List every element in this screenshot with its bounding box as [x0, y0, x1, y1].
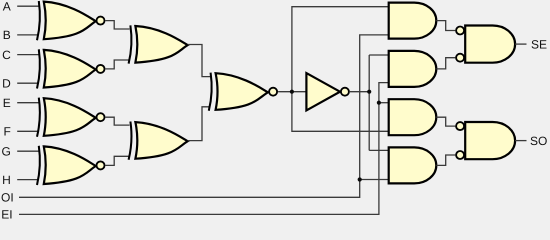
wire input B — [17, 34, 39, 36]
junction OI branch — [358, 177, 362, 181]
XNOR gate U3 (E,F) — [37, 98, 105, 137]
wire U3 out to U6 — [106, 117, 130, 125]
wire U1 out to U5 — [106, 21, 130, 29]
XOR gate U5 — [129, 25, 188, 63]
junction node X — [290, 90, 294, 94]
svg-text:D: D — [2, 77, 11, 91]
wire input F — [17, 130, 39, 132]
NOR gate U13 (SE) — [456, 26, 515, 63]
wire EI input — [19, 83, 390, 215]
svg-text:C: C — [2, 48, 11, 62]
svg-text:EI: EI — [1, 208, 12, 222]
svg-text:G: G — [1, 145, 10, 159]
wire U2 out to U5 — [106, 60, 130, 69]
XNOR gate U7 — [209, 73, 277, 111]
wire OI input — [19, 35, 390, 197]
wire U4 out to U6 — [106, 156, 130, 165]
AND gate U11 — [389, 99, 437, 135]
inverter U8 — [306, 73, 349, 110]
wire node X to U9 top — [292, 7, 390, 92]
wire input G — [17, 150, 39, 152]
wire node NX to U10 top — [368, 55, 370, 150]
wire SO output — [515, 140, 526, 142]
wire node NX branch down to U12 — [369, 149, 389, 151]
wire input A — [17, 5, 39, 7]
svg-text:B: B — [3, 28, 11, 42]
NOR gate U14 (SO) — [456, 122, 515, 159]
wire input D — [17, 82, 39, 84]
wire SE output — [515, 43, 526, 45]
junction node NX — [367, 90, 371, 94]
wire input E — [17, 102, 39, 104]
wire U6 out to U7 — [188, 107, 211, 141]
AND gate U12 — [389, 147, 437, 183]
wire U5 out to U7 — [188, 45, 211, 77]
wire input C — [17, 54, 39, 56]
wire U9 out — [436, 21, 455, 31]
svg-text:H: H — [2, 173, 11, 187]
svg-text:SE: SE — [531, 37, 547, 51]
XNOR gate U4 (G,H) — [37, 146, 105, 185]
wire U8 out to node NX — [349, 91, 369, 93]
svg-text:E: E — [3, 96, 11, 110]
wire U11 out — [436, 117, 455, 126]
wire OI branch to U12 bottom — [360, 179, 390, 181]
wire U12 out — [436, 155, 455, 165]
XOR gate U6 — [129, 122, 188, 160]
svg-text:SO: SO — [530, 134, 547, 148]
svg-text:A: A — [3, 0, 11, 14]
AND gate U9 — [389, 3, 437, 39]
wire input H — [17, 179, 39, 181]
wire node NX branch up to U10 — [369, 54, 389, 56]
wire EI branch to U11 top — [379, 102, 390, 104]
svg-text:F: F — [3, 125, 10, 139]
svg-text:OI: OI — [1, 191, 14, 205]
wire node X to U11 bottom — [292, 92, 390, 132]
wire U7 out to node X — [278, 91, 306, 93]
wire U10 out — [436, 58, 455, 69]
XNOR gate U2 (C,D) — [37, 49, 105, 88]
XNOR gate U1 (A,B) — [37, 1, 105, 40]
AND gate U10 — [389, 51, 437, 87]
junction EI branch — [377, 101, 381, 105]
